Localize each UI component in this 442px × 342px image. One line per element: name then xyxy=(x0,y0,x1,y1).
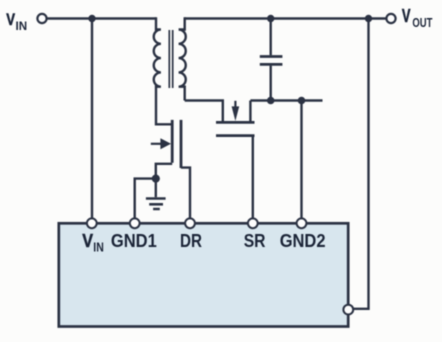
wire top-left rail xyxy=(47,17,156,19)
pin GND1 xyxy=(130,218,140,228)
node capacitor top junction xyxy=(267,15,274,22)
svg-text:IN: IN xyxy=(16,19,28,33)
svg-text:DR: DR xyxy=(180,230,202,251)
pin GND2 xyxy=(297,218,307,228)
svg-text:V: V xyxy=(82,230,93,251)
pin VIN xyxy=(87,218,97,228)
svg-text:IN: IN xyxy=(93,239,104,254)
node Q1 source junction xyxy=(152,175,160,183)
node VOUT junction xyxy=(365,15,372,22)
ground xyxy=(146,179,166,209)
node GND2 junction xyxy=(298,97,306,105)
wire secondary to Q2 left lead xyxy=(185,101,223,122)
transformer T1 xyxy=(154,17,186,100)
wire VIN pin drop xyxy=(91,19,93,219)
transistor Q1 (main switch) xyxy=(151,88,190,218)
svg-text:GND1: GND1 xyxy=(111,230,157,251)
terminal VIN xyxy=(37,14,46,23)
wire Q2 right rail with stub xyxy=(250,99,322,101)
wire source to GND1 pin xyxy=(135,179,156,219)
node cap bottom junction xyxy=(267,97,275,105)
svg-text:V: V xyxy=(402,6,411,26)
svg-text:SR: SR xyxy=(244,230,266,251)
capacitor C1 xyxy=(260,19,283,101)
svg-text:OUT: OUT xyxy=(412,16,432,30)
node VIN junction xyxy=(88,15,95,22)
wire VOUT feedback to IC xyxy=(353,19,368,309)
transistor Q2 (synchronous rectifier) xyxy=(216,101,255,136)
pin DR xyxy=(185,218,195,228)
svg-text:V: V xyxy=(6,10,15,29)
controller IC xyxy=(59,223,348,326)
wire Q2 gate to SR pin xyxy=(252,137,254,219)
pin SR xyxy=(248,218,258,228)
wire GND2 pin drop xyxy=(300,101,302,219)
svg-text:GND2: GND2 xyxy=(280,230,326,251)
pin FB (right edge) xyxy=(343,305,353,315)
wire top-right rail xyxy=(185,17,387,19)
terminal VOUT xyxy=(386,14,395,23)
